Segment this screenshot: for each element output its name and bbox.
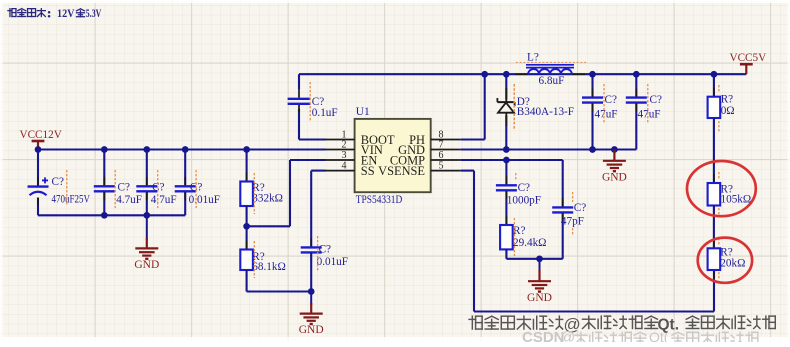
watermark dark: 掘金技术社区 @ 长沙红胖子Qt..长沙创微智科 <box>469 315 775 334</box>
svg-text:1000pF: 1000pF <box>507 195 541 207</box>
svg-text:C?: C? <box>605 94 617 106</box>
svg-text:7: 7 <box>439 140 444 151</box>
wire VSENSE feedback <box>461 171 714 312</box>
value label 29.4kΩ <box>513 237 547 249</box>
value label 0.01uF (SS) <box>317 256 348 268</box>
svg-text:L?: L? <box>527 52 539 64</box>
svg-text:C?: C? <box>118 182 130 194</box>
watermark light: CSDN @长沙红胖子Qt(长沙创微智科) <box>522 329 758 346</box>
svg-text:GND: GND <box>299 324 324 336</box>
value label 68.1kΩ <box>252 261 285 273</box>
label R? (0R) <box>721 94 733 106</box>
marker (orange) <box>195 170 197 208</box>
capacitor C? 470uF25V (polarized) <box>28 150 49 216</box>
svg-text:0.01uF: 0.01uF <box>317 256 348 268</box>
junction dot comp gnd <box>536 255 543 262</box>
label R? (20k) <box>720 247 732 259</box>
marker (orange) 47uF <box>647 84 649 124</box>
svg-text:6: 6 <box>439 150 444 161</box>
wire 1000pF branch <box>505 160 507 225</box>
value label 0.1uF <box>312 107 338 119</box>
wire R68.1k bottom to SS bus <box>247 270 312 292</box>
resistor R? 20k <box>708 239 721 279</box>
wire input caps bottom bus <box>38 214 185 216</box>
label C? (SS cap) <box>319 244 331 256</box>
svg-text:12V: 12V <box>57 8 75 20</box>
junction dots input bottom bus <box>101 212 150 219</box>
svg-text:6.8uF: 6.8uF <box>539 75 565 87</box>
marker (orange) diode <box>513 84 515 130</box>
svg-text:C?: C? <box>52 176 64 188</box>
value label 1000pF <box>507 195 541 207</box>
wire COMP net pin6 <box>461 159 563 161</box>
svg-text:VCC12V: VCC12V <box>20 129 62 141</box>
marker (orange) R29.4k <box>513 218 515 256</box>
marker (orange) 47uF <box>603 84 605 124</box>
svg-text:29.4kΩ: 29.4kΩ <box>513 237 547 249</box>
op-amp/regulator U1 TPS54331D body <box>355 119 431 192</box>
highlight ellipse around R105k <box>687 161 756 216</box>
label C? (47uF) <box>650 94 662 106</box>
wire chain top lead <box>713 74 715 97</box>
label TPS54331D <box>356 194 403 206</box>
label L? <box>527 52 539 64</box>
svg-text:0.01uF: 0.01uF <box>189 194 220 206</box>
ground GND (SS) <box>299 292 324 337</box>
svg-text:@: @ <box>560 329 575 342</box>
label C? <box>190 182 202 194</box>
pin name labels <box>361 133 425 178</box>
capacitor C? 47pF <box>552 198 573 221</box>
junction dot EN divider <box>243 223 250 230</box>
svg-text:C?: C? <box>518 182 530 194</box>
wire GND net pin7 <box>461 148 637 150</box>
svg-text:47uF: 47uF <box>595 108 618 120</box>
wire output top bus <box>299 73 746 75</box>
wire chain mid2 <box>713 206 715 249</box>
highlight ellipse around R20k <box>698 238 752 283</box>
svg-text:VSENSE: VSENSE <box>378 164 425 178</box>
marker (orange) C1 <box>66 170 68 206</box>
value label 105kΩ <box>721 193 752 205</box>
svg-text:68.1kΩ: 68.1kΩ <box>252 261 285 273</box>
resistor R? 29.4k <box>500 216 513 258</box>
diode D? B340A-13-F (schottky) <box>497 74 514 149</box>
svg-text:C?: C? <box>319 244 331 256</box>
value label 470uF25V <box>52 194 91 206</box>
resistor R? 68.1k <box>240 241 253 280</box>
junction dot SS/GND <box>308 288 315 295</box>
value label 332kΩ <box>252 192 283 204</box>
label D? <box>517 96 530 108</box>
pin numbers 1-8 <box>342 130 444 172</box>
marker (orange) SS cap <box>317 236 319 272</box>
capacitor C? 47uF (output) <box>582 74 603 149</box>
svg-text:Qt(: Qt( <box>649 329 669 342</box>
marker (orange) R20k <box>718 238 720 280</box>
value label 4.7uF <box>151 194 177 206</box>
label C? (47uF) <box>605 94 617 106</box>
svg-text:2: 2 <box>342 140 347 151</box>
power flag VCC12V <box>20 129 62 150</box>
svg-text:105kΩ: 105kΩ <box>721 193 752 205</box>
label C? (BOOT cap) <box>312 96 324 108</box>
wire VIN top bus VCC12V to pin2 <box>38 148 326 150</box>
marker (orange) BOOT cap <box>309 82 311 121</box>
svg-text:332kΩ: 332kΩ <box>252 192 283 204</box>
svg-text:U1: U1 <box>356 106 370 118</box>
svg-text:0.1uF: 0.1uF <box>312 107 338 119</box>
svg-text:B340A-13-F: B340A-13-F <box>517 106 574 118</box>
label C? (470uF cap) <box>52 176 64 188</box>
marker (orange) 47pF <box>572 192 574 235</box>
marker (orange) R68.1k <box>253 241 255 278</box>
svg-text:SS: SS <box>361 164 375 178</box>
label R? (332k) <box>252 182 264 194</box>
svg-text:GND: GND <box>527 292 552 304</box>
svg-text:C?: C? <box>574 202 586 214</box>
value label B340A-13-F <box>517 106 574 118</box>
label R? (105k) <box>721 183 733 195</box>
marker (orange) <box>157 170 159 208</box>
wire SS net pin4 to cap <box>311 171 325 247</box>
capacitor C? 0.01uF (input) <box>175 150 196 216</box>
title text: 电源模块 12V转5.3V <box>8 8 102 20</box>
junction dots GND net <box>503 146 618 153</box>
capacitor C? 1000pF <box>496 176 517 199</box>
marker (orange) inductor <box>516 61 586 63</box>
wire 47pF branch <box>562 160 564 259</box>
capacitor C? 47uF (output) <box>626 74 647 149</box>
resistor R? 105k <box>708 174 721 215</box>
label C? (1000pF) <box>518 182 530 194</box>
wire R332k top lead <box>246 150 248 182</box>
svg-text:GND: GND <box>602 171 627 183</box>
svg-text:GND: GND <box>134 259 159 271</box>
marker (orange) R332k <box>253 173 255 214</box>
svg-text:C?: C? <box>650 94 662 106</box>
junction dots input top bus <box>35 146 250 153</box>
junction dot COMP <box>503 157 510 164</box>
svg-text:TPS54331D: TPS54331D <box>356 194 403 206</box>
label R? (29.4k) <box>513 225 525 237</box>
svg-text:4.7uF: 4.7uF <box>116 194 142 206</box>
svg-text:5.3V: 5.3V <box>86 8 102 20</box>
wire comp bottom node <box>506 249 562 258</box>
label C? <box>152 182 164 194</box>
svg-text:20kΩ: 20kΩ <box>720 257 745 269</box>
value label 47uF <box>638 108 661 120</box>
svg-text:4: 4 <box>342 161 347 172</box>
ground GND (COMP) <box>527 259 552 304</box>
svg-text:470uF25V: 470uF25V <box>52 194 91 206</box>
label C? (47pF) <box>574 202 586 214</box>
svg-text:VCC5V: VCC5V <box>730 52 767 64</box>
svg-text:C?: C? <box>312 96 324 108</box>
svg-text:CSDN: CSDN <box>522 329 565 342</box>
junction dots output bus <box>481 71 717 78</box>
power flag VCC5V <box>730 52 767 74</box>
value label 4.7uF <box>116 194 142 206</box>
marker (orange) R0 <box>718 85 720 133</box>
label U1 <box>356 106 370 118</box>
value label 0Ω <box>721 105 735 117</box>
svg-text:R?: R? <box>721 94 733 106</box>
capacitor C? 4.7uF (input) <box>136 150 157 216</box>
svg-text:3: 3 <box>342 150 347 161</box>
capacitor C? 0.01uF (SS) <box>301 238 322 261</box>
wire chain mid1 <box>713 118 715 183</box>
wire BOOT riser and top bus corner <box>299 74 326 139</box>
wire SS cap bottom <box>310 252 312 291</box>
marker (orange) 1000pF <box>515 173 517 181</box>
label R? (68.1k) <box>252 251 264 263</box>
value label 47uF <box>595 108 618 120</box>
resistor R? 332k <box>240 173 253 216</box>
wire EN net junction to riser <box>247 160 326 226</box>
svg-text:47pF: 47pF <box>561 216 584 228</box>
ground GND (input caps) <box>134 215 159 271</box>
value label 0.01uF <box>189 194 220 206</box>
svg-text:5: 5 <box>439 161 444 172</box>
capacitor C? 4.7uF (input) <box>94 150 115 216</box>
value label 47pF <box>561 216 584 228</box>
chip pin stubs 1-8 <box>325 140 461 171</box>
capacitor C? 0.1uF (BOOT) <box>288 90 311 113</box>
marker (orange) R105k <box>718 172 720 216</box>
svg-text:47uF: 47uF <box>638 108 661 120</box>
ground GND (output caps) <box>602 150 627 184</box>
svg-text:0Ω: 0Ω <box>721 105 735 117</box>
value label 6.8uF <box>539 75 565 87</box>
wire R68.1k top lead <box>246 226 248 249</box>
marker (orange) <box>114 170 116 208</box>
value label 20kΩ <box>720 257 745 269</box>
svg-text:4.7uF: 4.7uF <box>151 194 177 206</box>
label C? <box>118 182 130 194</box>
inductor L? 6.8uF <box>515 65 585 74</box>
wire PH pin8 riser <box>461 74 485 139</box>
resistor R? 0R <box>708 88 721 127</box>
wire R332k bottom to junction <box>246 206 248 226</box>
